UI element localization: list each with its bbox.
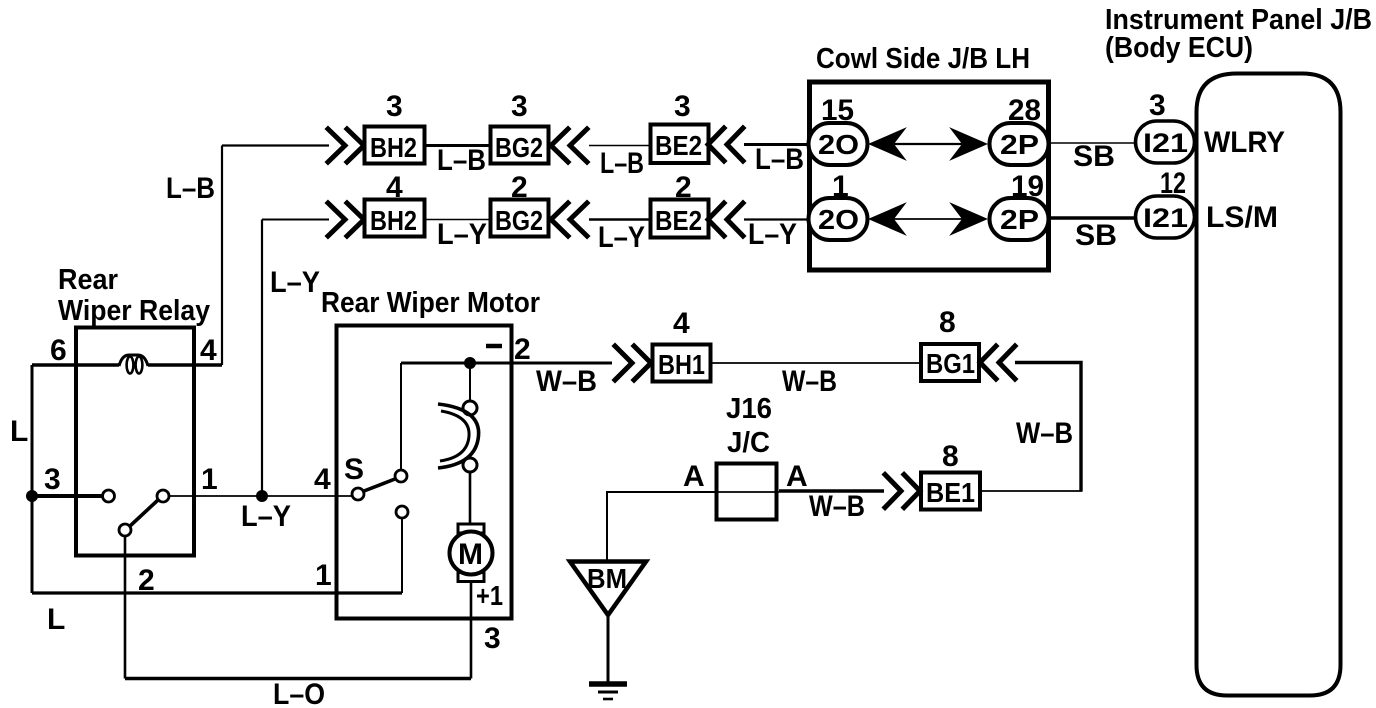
connector BG1 pin 8 — [921, 306, 979, 381]
svg-text:3: 3 — [511, 90, 528, 123]
connector BE1 pin 8 — [921, 440, 980, 510]
svg-text:SB: SB — [1073, 140, 1115, 173]
svg-text:2: 2 — [511, 171, 528, 204]
svg-text:Cowl Side J/B LH: Cowl Side J/B LH — [816, 43, 1030, 75]
svg-text:BH2: BH2 — [370, 132, 417, 163]
motor lower switch contact — [396, 506, 408, 518]
svg-text:3: 3 — [674, 90, 691, 123]
wire from BM riser to J16 — [607, 492, 716, 560]
ground symbol — [589, 684, 627, 699]
svg-text:L: L — [47, 603, 65, 636]
wire relay coil feed from left L wire through relay to pin 4 corner — [32, 363, 222, 366]
svg-text:L–B: L–B — [755, 143, 804, 176]
svg-text:4: 4 — [314, 463, 331, 496]
svg-text:A: A — [683, 460, 705, 493]
wire W-B from J16 to BE1 arrows — [779, 489, 884, 492]
wire L-Y between BG2 and BE2 — [589, 218, 651, 221]
svg-text:28: 28 — [1008, 94, 1041, 127]
wire row1 horizontal from L-B vertical to BH2 arrows — [222, 144, 329, 146]
svg-text:L–Y: L–Y — [270, 266, 320, 299]
svg-text:BG1: BG1 — [926, 348, 975, 379]
svg-text:+1: +1 — [476, 580, 503, 611]
connector BH2 pin 4 — [365, 171, 425, 237]
bus arrows between 2O and 2P row1 — [870, 129, 986, 159]
connector arrows out of BE2 — [708, 128, 743, 161]
minus polarity mark — [486, 344, 502, 349]
svg-text:M: M — [458, 538, 483, 571]
svg-text:6: 6 — [50, 334, 67, 367]
svg-text:L: L — [10, 415, 28, 448]
connector arrows out of BG2 row2 — [551, 203, 587, 236]
terminal 2P pin 28 oval in cowl J/B — [990, 94, 1049, 165]
wire motor pin 2 internal and out to W-B run — [401, 362, 612, 365]
svg-text:W–B: W–B — [782, 365, 837, 398]
motor M1 — [450, 524, 493, 582]
label Rear Wiper Relay — [58, 264, 210, 327]
connector BE2 pin 3 — [651, 90, 709, 163]
Instrument Panel J/B (Body ECU) block U1 — [1197, 74, 1341, 696]
junction connector J16 J/C — [717, 393, 777, 520]
connector arrows out of BE2 row2 — [708, 203, 743, 236]
svg-text:L–Y: L–Y — [598, 221, 645, 254]
svg-text:3: 3 — [44, 463, 61, 496]
ground triangle BM — [570, 562, 646, 616]
wire L-Y between BH2 and BG2 — [424, 219, 491, 221]
wire W-B from BG1 arrows right and down to BE1 — [1015, 363, 1081, 492]
wire motor pin 3 down to L-O run — [470, 581, 473, 679]
connector BG2 pin 3 — [491, 90, 549, 164]
wire BM to ground — [607, 615, 610, 684]
svg-text:Wiper Relay: Wiper Relay — [58, 295, 210, 327]
svg-text:J/C: J/C — [727, 427, 770, 459]
svg-text:J16: J16 — [726, 393, 772, 425]
connector arrows out of BG1 — [980, 346, 1015, 379]
wire W-B between BH1 and BG1 — [710, 362, 921, 364]
svg-text:L–B: L–B — [437, 144, 486, 177]
svg-text:BM: BM — [587, 563, 627, 594]
svg-text:BE2: BE2 — [655, 130, 702, 161]
wire relay pin 2 down to L-O run — [124, 536, 127, 679]
svg-text:BH2: BH2 — [370, 205, 417, 236]
svg-text:1: 1 — [832, 170, 849, 203]
svg-text:3: 3 — [484, 622, 501, 655]
wire L-B between BG2 and BE2 — [589, 145, 651, 147]
svg-text:BE2: BE2 — [655, 205, 702, 236]
svg-text:3: 3 — [386, 90, 403, 123]
svg-text:BG2: BG2 — [495, 205, 543, 236]
label Instrument Panel J/B (Body ECU) — [1105, 4, 1372, 64]
bus arrows between 2O and 2P row2 — [870, 204, 986, 234]
svg-text:S: S — [344, 453, 364, 486]
svg-text:W–B: W–B — [536, 365, 597, 398]
Rear Wiper Relay box — [76, 328, 194, 556]
wire SB from 2P to I21 row1 — [1048, 142, 1137, 144]
svg-text:L–B: L–B — [600, 147, 644, 180]
svg-text:L–O: L–O — [273, 678, 325, 708]
svg-text:A: A — [786, 460, 808, 493]
wire L bottom run from left wire to motor pin 1 — [32, 591, 402, 594]
connector BH2 pin 3 — [365, 90, 425, 164]
wire L-B between BH2 and BG2 — [424, 144, 491, 147]
wire junction to cam top contact — [469, 368, 471, 401]
wire L-B from BE2 arrows to cowl J/B — [744, 143, 809, 146]
connector arrows into BH1 — [615, 346, 651, 380]
Cowl Side J/B LH block — [810, 82, 1049, 270]
svg-text:BG2: BG2 — [495, 132, 543, 163]
wire row2 horizontal from L-Y vertical to BH2 arrows — [262, 219, 329, 221]
svg-text:1: 1 — [201, 463, 218, 496]
wire L-O bottom run — [125, 677, 471, 681]
terminal 2O pin 1 oval in cowl J/B — [809, 170, 868, 240]
wire A to A through J16 — [716, 491, 779, 493]
cam crescent — [438, 404, 479, 468]
svg-text:4: 4 — [386, 171, 403, 204]
relay contact pin 3 — [103, 490, 115, 502]
wire L-Y from BE2 arrows to cowl J/B — [744, 218, 809, 220]
wire cam to motor — [469, 472, 472, 525]
relay switch blade SW1 — [119, 490, 169, 536]
connector BG2 pin 2 — [491, 171, 549, 237]
svg-text:L–Y: L–Y — [241, 500, 291, 533]
svg-text:(Body ECU): (Body ECU) — [1105, 32, 1253, 64]
terminal 2O pin 15 oval in cowl J/B — [809, 94, 868, 165]
wire from pin 2 down to park switch contact — [400, 363, 402, 470]
svg-text:4: 4 — [200, 334, 217, 367]
svg-text:BE1: BE1 — [926, 477, 975, 508]
node junction on pin 2 wire — [464, 357, 476, 369]
svg-text:W–B: W–B — [809, 490, 865, 523]
relay coil L1 — [119, 355, 148, 374]
svg-text:2P: 2P — [1000, 204, 1039, 235]
node junction relay pin 3 — [26, 490, 38, 502]
svg-text:L–Y: L–Y — [748, 218, 797, 251]
svg-text:2: 2 — [514, 333, 531, 366]
svg-text:BH1: BH1 — [658, 349, 705, 380]
svg-text:15: 15 — [821, 94, 854, 127]
wire SB from 2P to I21 row2 — [1048, 216, 1137, 219]
svg-text:WLRY: WLRY — [1204, 126, 1285, 159]
svg-text:19: 19 — [1011, 170, 1044, 203]
svg-text:SB: SB — [1075, 219, 1117, 252]
svg-text:2O: 2O — [818, 129, 859, 160]
connector BE2 pin 2 — [651, 171, 709, 238]
connector arrows out of BG2 — [551, 129, 587, 162]
wire relay pin 3 stub — [32, 494, 102, 498]
wire relay pin 1 to motor pin 4 — [169, 495, 353, 497]
svg-text:LS/M: LS/M — [1206, 201, 1278, 234]
cam switch contact top — [463, 401, 477, 415]
terminal 2P pin 19 oval in cowl J/B — [990, 170, 1049, 240]
svg-text:8: 8 — [939, 306, 956, 339]
terminal I21 pin 3 oval — [1136, 89, 1195, 163]
wire L vertical at far left — [31, 365, 34, 593]
svg-text:I21: I21 — [1143, 203, 1188, 233]
svg-text:2: 2 — [675, 171, 692, 204]
connector arrows into BH2 — [328, 129, 364, 162]
svg-text:8: 8 — [942, 440, 959, 473]
wire L-Y vertical from relay pin 1 junction up to row2 — [261, 220, 263, 497]
svg-text:12: 12 — [1160, 167, 1186, 200]
svg-text:4: 4 — [673, 307, 690, 340]
svg-text:2P: 2P — [1000, 129, 1039, 160]
svg-text:I21: I21 — [1143, 128, 1188, 158]
cam switch contact bottom — [463, 458, 477, 472]
svg-text:W–B: W–B — [1016, 417, 1073, 450]
motor park switch blade S — [352, 470, 407, 500]
connector BH1 pin 4 — [653, 307, 711, 382]
svg-text:L–Y: L–Y — [437, 218, 487, 251]
svg-text:2O: 2O — [818, 204, 859, 235]
svg-text:Rear Wiper Motor: Rear Wiper Motor — [321, 287, 540, 319]
svg-text:1: 1 — [315, 559, 332, 592]
terminal I21 pin 12 oval — [1136, 167, 1195, 238]
connector arrows into BE1 — [885, 475, 920, 508]
svg-text:Rear: Rear — [58, 264, 118, 296]
wire from lower contact down to pin 1 run — [401, 518, 403, 593]
svg-text:3: 3 — [1149, 89, 1166, 122]
wire L-B vertical from relay pin 4 up to row1 — [221, 146, 223, 366]
node junction L-Y on pin 1 wire — [256, 490, 268, 502]
connector arrows into BH2 row2 — [328, 203, 364, 236]
svg-text:L–B: L–B — [166, 172, 215, 205]
Rear Wiper Motor box — [337, 326, 512, 619]
